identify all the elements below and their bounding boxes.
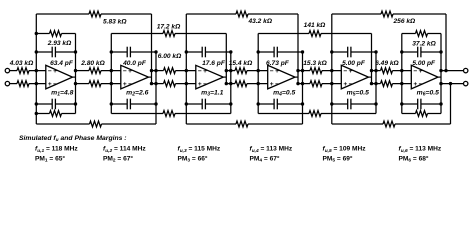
op-amp U1: [46, 65, 76, 89]
svg-text:PM2 = 67°: PM2 = 67°: [103, 154, 133, 163]
resistor 6.00 kΩ top (stage2-3): [164, 68, 176, 74]
wire: R to stage5 in bottom: [322, 83, 342, 85]
resistor stage1 local feedback bottom: [36, 111, 75, 117]
svg-text:−: −: [48, 68, 52, 75]
svg-text:+: +: [128, 68, 132, 75]
resistor 2.80 kΩ bottom (stage1-2): [89, 81, 101, 87]
svg-text:2.80 kΩ: 2.80 kΩ: [80, 60, 105, 67]
svg-text:40.0 pF: 40.0 pF: [122, 60, 147, 67]
resistor 6.00 kΩ bottom (stage2-3): [164, 81, 176, 87]
wire: stage5 out to R top: [372, 70, 381, 72]
wire: stage1 output vertical: [75, 34, 77, 114]
wire: stage2 input vertical: [110, 34, 112, 114]
svg-text:−: −: [128, 81, 132, 88]
svg-text:6.00 kΩ: 6.00 kΩ: [158, 53, 182, 60]
svg-text:4.03 kΩ: 4.03 kΩ: [9, 60, 34, 67]
svg-text:2.93 kΩ: 2.93 kΩ: [47, 40, 72, 47]
capacitor stage1 bottom (mirror): [36, 99, 75, 110]
op-amp U5: [341, 65, 371, 89]
op-amp U4: [268, 65, 298, 89]
wire: bottom input to stage1: [29, 83, 47, 85]
svg-text:+: +: [53, 68, 57, 75]
resistor 6.49 kΩ bottom (stage5-6): [381, 81, 393, 87]
svg-text:256 kΩ: 256 kΩ: [393, 18, 417, 25]
svg-text:5.83 kΩ: 5.83 kΩ: [103, 19, 127, 26]
svg-text:+: +: [349, 68, 353, 75]
input terminal bottom (-): [5, 81, 9, 85]
input terminal top (+): [5, 68, 9, 72]
resistor 6.49 kΩ top (stage5-6): [381, 68, 393, 74]
wire: stage3 output cap/feedback drop: [230, 52, 232, 114]
svg-text:5.00 pF: 5.00 pF: [342, 60, 366, 67]
wire: stage1 out to R bottom: [76, 83, 90, 85]
resistor 17.2 kΩ feedback bottom: [111, 111, 231, 117]
svg-text:PM4 = 67°: PM4 = 67°: [250, 154, 280, 163]
svg-text:+: +: [48, 81, 52, 88]
capacitor 63.4 pF stage1 top: [36, 47, 75, 67]
wire: stage6 output vertical: [440, 34, 442, 114]
svg-text:−: −: [53, 81, 57, 88]
resistor 15.4 kΩ top (stage3-4): [235, 68, 247, 74]
output terminal top: [464, 68, 468, 72]
capacitor 17.6 pF stage3 top: [186, 47, 231, 67]
wire: stage3 output vertical: [225, 34, 227, 84]
wire: stage5 out to R bottom: [372, 83, 381, 85]
capacitor stage5 bottom (mirror): [332, 99, 376, 110]
svg-text:PM5 = 69°: PM5 = 69°: [323, 154, 353, 163]
resistor 15.3 kΩ bottom (stage4-5): [310, 81, 322, 87]
svg-text:Simulated fu and Phase Margins: Simulated fu and Phase Margins :: [19, 135, 127, 143]
resistor 15.4 kΩ bottom (stage3-4): [235, 81, 247, 87]
wire: stage6 output bottom lead: [441, 83, 464, 85]
resistor 141 kΩ feedback (stage4-5) top: [258, 22, 371, 37]
wire: stage5 input vertical: [331, 14, 333, 124]
wire: stage5 output vertical: [371, 34, 373, 84]
svg-text:5.00 pF: 5.00 pF: [412, 60, 436, 67]
svg-text:−: −: [413, 68, 417, 75]
resistor 2.80 kΩ top (stage1-2): [89, 68, 101, 74]
svg-text:+: +: [123, 81, 127, 88]
capacitor 40.0 pF stage2 top: [111, 47, 156, 67]
wire: stage1 input vertical: [35, 14, 37, 124]
wire: stage4 out to R top: [298, 70, 310, 72]
svg-text:+: +: [203, 68, 207, 75]
wire: R to stage4 in bottom: [247, 83, 268, 85]
wire: R to stage6 in top: [393, 70, 413, 72]
resistor 5.83 kΩ top feedback (stage1-2): [36, 11, 151, 25]
resistor 256 kΩ feedback bottom: [332, 121, 451, 127]
svg-text:+: +: [419, 68, 423, 75]
resistor 4.03 kΩ top input: [17, 68, 29, 74]
svg-text:+: +: [275, 68, 279, 75]
svg-text:−: −: [419, 81, 423, 88]
resistor 17.2 kΩ feedback (stage2-3) top: [111, 23, 226, 36]
capacitor stage3 bottom (mirror): [186, 99, 231, 110]
svg-text:PM6 = 68°: PM6 = 68°: [399, 154, 429, 163]
svg-text:17.6 pF: 17.6 pF: [202, 60, 226, 67]
wire: stage3 out to R bottom: [226, 83, 235, 85]
svg-text:15.4 kΩ: 15.4 kΩ: [229, 60, 253, 67]
resistor 43.2 kΩ feedback bottom: [186, 121, 302, 127]
wire: stage6 top outer drop: [445, 14, 447, 71]
svg-text:+: +: [270, 81, 274, 88]
op-amp U2: [121, 65, 152, 89]
wire: input lead top: [9, 70, 17, 72]
wire: R to stage6 in bottom: [393, 83, 413, 85]
resistor 2.93 kΩ stage1 local feedback top: [36, 31, 75, 48]
svg-text:PM3 = 66°: PM3 = 66°: [178, 154, 208, 163]
wire: stage1 out to R top: [76, 70, 90, 72]
svg-text:17.2 kΩ: 17.2 kΩ: [157, 23, 181, 30]
capacitor stage2 bottom (mirror): [111, 99, 156, 110]
wire: R to stage3 in top: [176, 70, 197, 72]
wire: stage3 input vertical: [185, 14, 187, 124]
capacitor 5.00 pF stage6 top: [402, 47, 441, 67]
wire: stage4 out to R bottom: [298, 83, 310, 85]
wire: stage2 out to R bottom: [152, 83, 164, 85]
resistor 15.3 kΩ top (stage4-5): [310, 68, 322, 74]
wire: stage4 output cap/feedback drop: [302, 52, 304, 124]
wire: R to stage5 in top: [322, 70, 342, 72]
svg-text:−: −: [203, 81, 207, 88]
wire: stage5 output cap/feedback drop: [375, 52, 377, 114]
capacitor stage6 bottom (mirror): [402, 99, 441, 110]
wire: top input to stage1: [29, 70, 47, 72]
wire: stage2 output cap/feedback drop: [155, 52, 157, 124]
wire: stage6 output top lead: [441, 70, 464, 72]
svg-text:−: −: [198, 68, 202, 75]
wire: R to stage2 in bottom: [101, 83, 122, 85]
svg-text:6.49 kΩ: 6.49 kΩ: [375, 60, 399, 67]
capacitor 5.00 pF stage5 top: [332, 47, 376, 67]
output terminal bottom: [464, 81, 468, 85]
svg-text:−: −: [343, 68, 347, 75]
capacitor stage4 bottom (mirror): [258, 99, 302, 110]
wire: stage2 out to R top: [152, 70, 164, 72]
svg-text:15.3 kΩ: 15.3 kΩ: [303, 60, 327, 67]
wire: stage6 bottom feedback drop: [450, 84, 452, 124]
wire: R to stage4 in top: [247, 70, 268, 72]
wire: stage6 input vertical: [401, 34, 403, 114]
svg-text:141 kΩ: 141 kΩ: [304, 22, 327, 29]
svg-text:6.73 pF: 6.73 pF: [266, 60, 290, 67]
resistor 141 kΩ feedback bottom: [258, 111, 376, 117]
svg-text:+: +: [343, 81, 347, 88]
resistor 43.2 kΩ top feedback (stage3-4): [186, 11, 298, 25]
resistor 4.03 kΩ bottom input: [17, 81, 29, 87]
svg-text:PM1 = 65°: PM1 = 65°: [35, 154, 65, 163]
capacitor 6.73 pF stage4 top: [258, 47, 302, 67]
svg-text:63.4 pF: 63.4 pF: [50, 60, 74, 67]
wire: R to stage2 in top: [101, 70, 122, 72]
op-amp U3: [196, 65, 227, 89]
wire: stage3 out to R top: [226, 70, 235, 72]
wire: R to stage3 in bottom: [176, 83, 197, 85]
resistor 37.2 kΩ stage6 local feedback top: [402, 31, 441, 48]
wire: input lead bottom: [9, 83, 17, 85]
resistor stage6 local feedback bottom: [402, 111, 441, 117]
svg-text:+: +: [198, 81, 202, 88]
wire: stage2 output vertical: [151, 14, 153, 84]
resistor 5.83 kΩ feedback bottom: [36, 121, 156, 127]
svg-text:+: +: [413, 81, 417, 88]
wire: stage4 input vertical: [257, 34, 259, 114]
resistor 256 kΩ top feedback (stage5-6): [332, 11, 446, 25]
svg-text:−: −: [123, 68, 127, 75]
svg-text:−: −: [275, 81, 279, 88]
svg-text:37.2 kΩ: 37.2 kΩ: [412, 41, 436, 48]
wire: stage4 output vertical: [297, 14, 299, 84]
op-amp U6: [411, 65, 441, 89]
svg-text:43.2 kΩ: 43.2 kΩ: [248, 18, 273, 25]
svg-text:−: −: [270, 68, 274, 75]
svg-text:−: −: [349, 81, 353, 88]
